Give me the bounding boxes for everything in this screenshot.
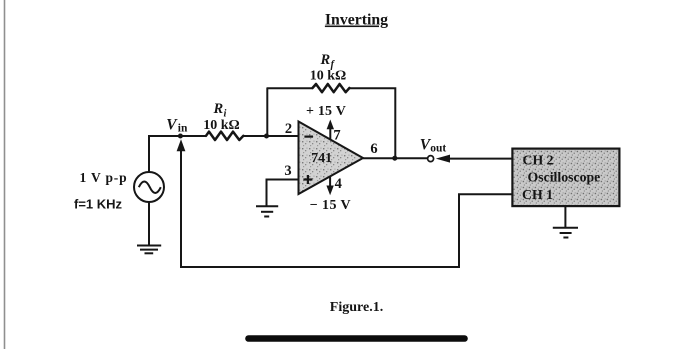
resistor Rf zigzag: [313, 84, 350, 92]
node Vin junction dot: [178, 134, 183, 139]
node junction dot at feedback/output: [392, 156, 397, 161]
label +15 V: [306, 104, 346, 119]
svg-text:CH 2: CH 2: [523, 152, 554, 167]
svg-text:Inverting: Inverting: [325, 12, 388, 29]
+15V supply arrow (pin 7): [327, 120, 334, 140]
source V1 sine generator circle: [134, 172, 164, 202]
op-amp minus input mark: [304, 136, 313, 138]
svg-text:4: 4: [335, 176, 342, 192]
ground (source): [137, 246, 161, 254]
svg-text:CH 1: CH 1: [522, 187, 553, 202]
resistor Ri zigzag: [206, 132, 243, 140]
label f=1 KHz: [74, 197, 123, 212]
op-amp plus input mark: [303, 175, 312, 184]
svg-text:− 15 V: − 15 V: [310, 198, 351, 213]
label 741: [311, 151, 332, 166]
wire: op-amp output to Vout node: [363, 157, 428, 159]
ground (oscilloscope): [553, 228, 578, 238]
svg-text:+ 15 V: + 15 V: [306, 104, 346, 119]
svg-text:Oscilloscope: Oscilloscope: [528, 170, 601, 185]
svg-text:R: R: [320, 52, 331, 68]
svg-text:Figure.1.: Figure.1.: [330, 300, 383, 315]
title Inverting: [325, 12, 388, 29]
wire: scope CH2 lead with arrowhead at Vout: [436, 155, 513, 163]
svg-text:6: 6: [370, 141, 377, 157]
wire: feedback top left segment: [267, 87, 313, 89]
wire: feedback top right segment and right vertical down to output: [349, 88, 395, 158]
ground (pin 3): [256, 206, 278, 216]
wire: scope ground stem: [564, 206, 566, 227]
svg-text:10 kΩ: 10 kΩ: [203, 118, 240, 133]
svg-text:R: R: [213, 101, 224, 117]
wire: scope CH1 lead down and across bottom to Vin with arrowhead: [177, 139, 513, 267]
svg-text:V: V: [166, 117, 178, 134]
pin label 7: [333, 128, 340, 144]
bottom separator bar: [249, 335, 465, 342]
label Oscilloscope: [528, 170, 601, 185]
wire: feedback loop left vertical: [266, 88, 268, 136]
label 1 V p-p: [80, 170, 128, 185]
pin label 6: [370, 141, 377, 157]
oscilloscope box: [512, 149, 619, 207]
value label 10 kOhm (Ri): [203, 118, 240, 133]
svg-text:10 kΩ: 10 kΩ: [310, 68, 347, 83]
wire: pin 3 to ground: [267, 180, 299, 206]
label Vout: [420, 137, 447, 155]
label Vin: [166, 117, 188, 135]
svg-text:3: 3: [284, 163, 291, 179]
op-amp U1 741 triangle: [299, 122, 364, 195]
svg-text:f=1 KHz: f=1 KHz: [74, 197, 123, 212]
wire: source bottom to ground: [148, 202, 150, 245]
label CH 2: [523, 152, 554, 167]
label -15 V: [310, 198, 351, 213]
label Rf: [320, 52, 336, 71]
node junction dot at feedback tap: [264, 134, 269, 139]
pin label 4: [335, 176, 342, 192]
pin label 2: [285, 121, 292, 137]
caption Figure.1.: [330, 300, 383, 315]
node Vout open terminal circle: [428, 156, 434, 162]
wire: Ri to op-amp pin 2: [243, 135, 298, 137]
svg-text:741: 741: [311, 151, 332, 166]
svg-text:7: 7: [333, 128, 340, 144]
svg-text:out: out: [430, 142, 446, 154]
value label 10 kOhm (Rf): [310, 68, 347, 83]
pin label 3: [284, 163, 291, 179]
wire: source top to Vin node to Ri: [149, 136, 206, 172]
-15V supply arrow (pin 4): [326, 176, 333, 195]
label CH 1: [522, 187, 553, 202]
label Ri: [213, 101, 227, 120]
svg-text:2: 2: [285, 121, 292, 137]
svg-text:in: in: [178, 123, 188, 135]
page left border line: [4, 0, 6, 349]
svg-text:1 V p-p: 1 V p-p: [80, 170, 128, 185]
